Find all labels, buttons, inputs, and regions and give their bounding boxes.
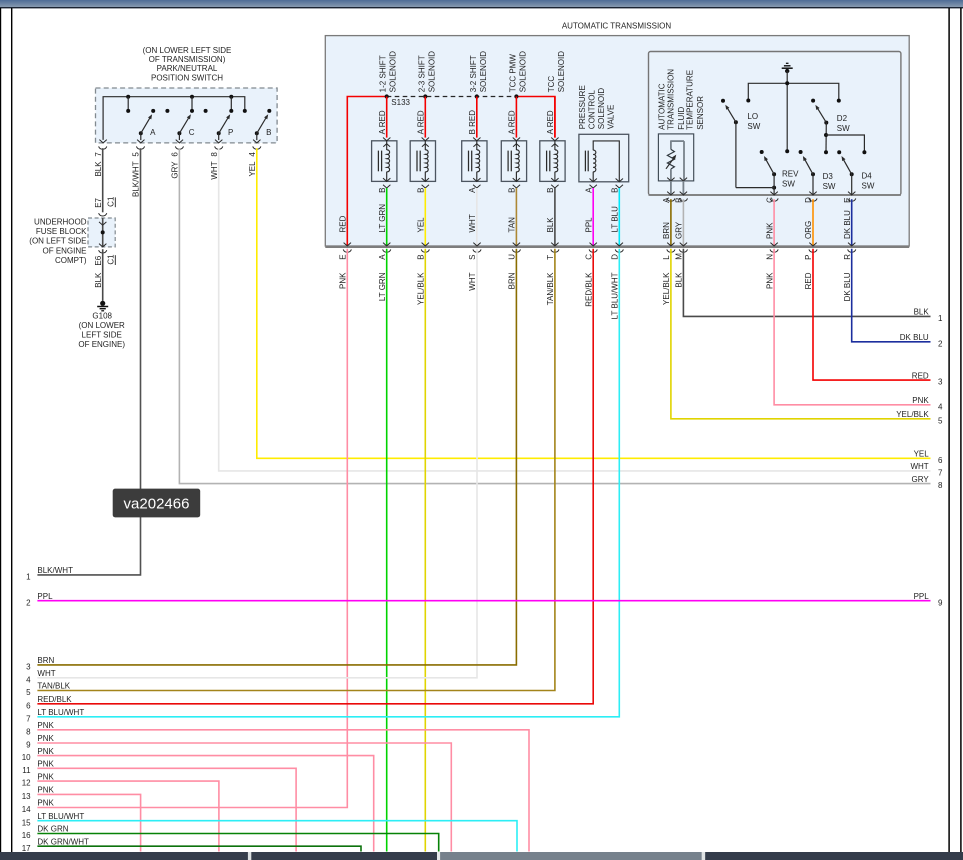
contact dot x=269 (267, 109, 271, 113)
connector arc E7/C1 (99, 213, 107, 216)
connector arc pin E (343, 249, 351, 252)
arrow at transmission connector pin D (616, 243, 623, 246)
connector arc pin P (809, 249, 817, 252)
arrow below solenoid 2-3 SHIFT (422, 185, 429, 188)
svg-text:OF ENGINE: OF ENGINE (42, 246, 86, 255)
svg-text:va202466: va202466 (124, 496, 190, 513)
svg-text:8: 8 (938, 481, 943, 490)
svg-text:BLK/WHT: BLK/WHT (132, 161, 141, 197)
svg-text:6: 6 (938, 456, 943, 465)
svg-text:SW: SW (837, 124, 850, 133)
svg-text:DK GRN/WHT: DK GRN/WHT (37, 837, 89, 846)
wire RED drop to TCC PMW solenoid (515, 97, 517, 138)
underhood fuse block box (88, 218, 115, 247)
switch contact C pivot dot (177, 131, 181, 135)
D3 SW arm (805, 159, 813, 174)
svg-text:7: 7 (938, 469, 943, 478)
arrow at pressure valve terminal A (590, 179, 597, 182)
svg-text:L: L (662, 255, 671, 260)
svg-text:DK GRN: DK GRN (37, 825, 68, 834)
splice junction dot 2-3 SHIFT (423, 94, 427, 98)
svg-text:PNK: PNK (339, 272, 348, 289)
svg-text:YEL: YEL (914, 450, 930, 459)
sensor lead wires to inner box bottom (670, 181, 672, 195)
svg-text:8: 8 (210, 152, 219, 157)
connector arc pin 7 (99, 146, 107, 149)
svg-text:ORG: ORG (804, 221, 813, 239)
svg-text:COMPT): COMPT) (55, 256, 87, 265)
connector arc pin U (512, 249, 520, 252)
svg-text:R: R (843, 254, 852, 260)
arrow at sensor terminal A (667, 178, 674, 181)
fuse block junction dot S-point (101, 230, 105, 234)
wire PNK from left connector 8 down off page (37, 730, 529, 852)
wire PNK from left connector 11 down off page (37, 768, 296, 851)
upper switch bus wire (748, 83, 839, 100)
wire YEL/BLK pin B down off page (424, 249, 426, 852)
connector arc pin 5 (136, 146, 144, 149)
wire RED/BLK pin C to left connector 6 (37, 249, 593, 704)
solenoid 1-2 SHIFT coil (386, 141, 388, 150)
connector arc pin M (679, 249, 687, 252)
solenoid TCC PMW box (501, 141, 526, 182)
arrow at pressure valve terminal B (616, 179, 623, 182)
wire BRN pin U to left connector 3 (37, 249, 516, 665)
thermistor symbol (670, 141, 672, 149)
svg-text:C: C (584, 254, 593, 260)
automatic transmission component box (325, 36, 909, 246)
svg-text:D2: D2 (837, 114, 848, 123)
svg-text:A RED: A RED (546, 110, 555, 134)
wire RED drop to 3-2 SHIFT solenoid (476, 97, 478, 138)
svg-text:DK BLU: DK BLU (900, 333, 929, 342)
wire YEL/BLK pin L to right connector 5 (671, 249, 931, 419)
solenoid 3-2 SHIFT core bars (468, 151, 470, 172)
D2 SW open contact dot (811, 99, 815, 103)
connector arc pin R (848, 249, 856, 252)
bus junction dot x=128 (126, 95, 130, 99)
wire LT BLU/WHT pin D to left connector 7 (37, 249, 619, 717)
pressure control solenoid valve box (579, 134, 629, 182)
svg-text:GRY: GRY (675, 221, 684, 239)
arrow at solenoid 3-2 SHIFT bottom (473, 178, 480, 181)
contact dot x=206 (204, 109, 208, 113)
REV SW junction dot with LO SW wire (772, 186, 776, 190)
arrow at transmission connector pin S (473, 243, 480, 246)
svg-text:G108: G108 (92, 312, 112, 321)
svg-text:4: 4 (248, 152, 257, 157)
switch contact P pivot dot (217, 131, 221, 135)
arrow below solenoid TCC (551, 185, 558, 188)
svg-text:AUTOMATIC: AUTOMATIC (658, 83, 667, 130)
svg-text:WHT: WHT (37, 669, 55, 678)
svg-text:E: E (843, 198, 852, 203)
svg-text:RED/BLK: RED/BLK (37, 695, 72, 704)
svg-text:1-2 SHIFT: 1-2 SHIFT (379, 55, 388, 92)
svg-text:B: B (378, 188, 387, 193)
svg-text:TAN/BLK: TAN/BLK (546, 272, 555, 305)
connector arc pin C (589, 249, 597, 252)
solenoid TCC PMW core bars (507, 151, 509, 172)
svg-text:A: A (150, 128, 156, 137)
REV SW pivot dot (772, 172, 776, 176)
svg-text:TAN: TAN (508, 217, 517, 233)
svg-text:UNDERHOOD: UNDERHOOD (34, 217, 87, 226)
wire DK GRN from left connector 16 down off page (37, 834, 438, 852)
wire BLK fuse block to G108 (102, 249, 104, 301)
svg-text:PPL: PPL (37, 592, 53, 601)
wire ORG inside transmission box (812, 199, 814, 246)
LO SW pivot drop wire (735, 122, 737, 187)
wire LT GRN from solenoid to box bottom (386, 188, 388, 246)
svg-text:SW: SW (823, 182, 836, 191)
bus junction dot x=192 (190, 95, 194, 99)
arrow below pressure valve B (616, 185, 623, 188)
svg-text:PNK: PNK (912, 396, 929, 405)
wire RED drop to 1-2 SHIFT solenoid (386, 97, 388, 138)
connector arc pin E (848, 198, 856, 201)
solenoid 1-2 SHIFT core bars (377, 151, 379, 172)
bus contact dot right (D2 SW) (837, 99, 841, 103)
svg-text:E6: E6 (94, 255, 103, 265)
wire WHT from solenoid to box bottom (476, 188, 478, 246)
svg-text:14: 14 (22, 805, 31, 814)
switch C drop arrow at box bottom (176, 140, 183, 143)
svg-text:D4: D4 (862, 171, 873, 180)
svg-text:WHT: WHT (910, 462, 928, 471)
svg-text:2: 2 (26, 598, 31, 607)
svg-text:YEL/BLK: YEL/BLK (417, 272, 426, 305)
arrow at inner box bottom pin D (809, 192, 816, 195)
arrow at solenoid 1-2 SHIFT bottom (383, 178, 390, 181)
svg-text:PNK: PNK (765, 222, 774, 239)
svg-text:CONTROL: CONTROL (588, 90, 597, 130)
svg-text:B: B (675, 198, 684, 203)
REV SW open contact dot (760, 150, 764, 154)
svg-text:PNK: PNK (37, 734, 54, 743)
connector arc pin S (473, 249, 481, 252)
switch C arm (179, 118, 189, 134)
svg-text:B: B (508, 188, 517, 193)
switch A pivot drop wire (140, 133, 142, 140)
wire BLK from solenoid to box bottom (554, 188, 556, 246)
D2 SW arm (817, 108, 826, 123)
contact dot D4-right (862, 150, 866, 154)
svg-text:D3: D3 (823, 172, 834, 181)
svg-text:B: B (417, 188, 426, 193)
connector arc pin 8 (215, 146, 223, 149)
svg-text:PNK: PNK (37, 772, 54, 781)
svg-text:3: 3 (26, 663, 31, 672)
svg-text:YEL/BLK: YEL/BLK (896, 410, 929, 419)
svg-text:9: 9 (26, 741, 31, 750)
pressure valve coil circuit (593, 141, 619, 182)
D4 SW open contact dot (837, 150, 841, 154)
svg-text:A: A (468, 187, 477, 193)
svg-text:(ON LOWER: (ON LOWER (79, 321, 125, 330)
wire BLK from park/neutral to E7 (102, 148, 104, 212)
wire RED drop to TCC solenoid (554, 97, 556, 138)
left page border lines (0, 8, 2, 852)
LO SW open contact dot (721, 99, 725, 103)
solenoid 3-2 SHIFT box (462, 141, 487, 182)
temperature sensor box (658, 134, 693, 181)
svg-text:12: 12 (22, 779, 31, 788)
contact dot x=128 (126, 109, 130, 113)
arrow at transmission connector pin A (383, 243, 390, 246)
contact dot D3-right (824, 150, 828, 154)
svg-text:P: P (228, 128, 233, 137)
svg-text:WHT: WHT (468, 272, 477, 290)
svg-text:16: 16 (22, 831, 31, 840)
svg-text:(ON LOWER LEFT SIDE: (ON LOWER LEFT SIDE (143, 46, 232, 55)
svg-text:RED: RED (912, 371, 929, 380)
svg-text:6: 6 (171, 152, 180, 157)
solenoid TCC box (540, 141, 565, 182)
arrow at inner box bottom pin C (770, 192, 777, 195)
D3 SW drop wire (812, 174, 814, 195)
arrow below solenoid TCC PMW (513, 185, 520, 188)
svg-text:OF TRANSMISSION): OF TRANSMISSION) (149, 55, 226, 64)
svg-text:LT GRN: LT GRN (378, 272, 387, 301)
svg-text:A RED: A RED (508, 110, 517, 134)
wire TAN from solenoid to box bottom (515, 188, 517, 246)
arrow at transmission connector pin N (770, 243, 777, 246)
svg-text:7: 7 (26, 714, 31, 723)
svg-text:PNK: PNK (37, 721, 54, 730)
splice junction dot TCC PMW (514, 94, 518, 98)
svg-text:10: 10 (22, 753, 31, 762)
arrow at sensor terminal B (680, 178, 687, 181)
arrow at transmission connector pin R (848, 243, 855, 246)
svg-text:RED: RED (804, 272, 813, 289)
svg-text:15: 15 (22, 818, 31, 827)
svg-text:P: P (804, 254, 813, 259)
solenoid 2-3 SHIFT box (410, 141, 435, 182)
svg-text:1: 1 (26, 573, 31, 582)
D3 SW open contact dot (799, 150, 803, 154)
arrow into solenoid 1-2 SHIFT (383, 138, 390, 141)
solenoid 3-2 SHIFT coil (476, 141, 478, 150)
svg-text:4: 4 (938, 402, 943, 411)
svg-text:SOLENOID: SOLENOID (389, 51, 398, 93)
arrow into solenoid TCC PMW (513, 138, 520, 141)
svg-text:PNK: PNK (765, 272, 774, 289)
svg-text:YEL/BLK: YEL/BLK (662, 272, 671, 305)
LO SW pivot dot (734, 120, 738, 124)
wire PNK from left connector 10 down off page (37, 756, 373, 852)
contact dot x=167 (165, 109, 169, 113)
svg-text:BRN: BRN (662, 222, 671, 239)
pressure valve core bars (584, 151, 586, 172)
arrow at inner box bottom pin A (667, 192, 674, 195)
svg-text:2-3 SHIFT: 2-3 SHIFT (417, 55, 426, 92)
wire BLK/WHT from switch pin 5 to left connector 1 (37, 148, 140, 575)
wire RED pin P to right connector 3 (813, 249, 931, 380)
svg-text:C: C (189, 128, 195, 137)
svg-text:3: 3 (938, 378, 943, 387)
wire PPL from pressure valve A (592, 188, 594, 246)
svg-text:S133: S133 (391, 98, 410, 107)
connector arc pin A (667, 198, 675, 201)
connector arc E6/C1 (99, 250, 107, 253)
arrow at inner box bottom pin E (848, 192, 855, 195)
splice junction dot 3-2 SHIFT (475, 94, 479, 98)
svg-text:BLK/WHT: BLK/WHT (37, 566, 73, 575)
D2 SW pivot dot (824, 121, 828, 125)
svg-text:B: B (546, 188, 555, 193)
arrow into solenoid 2-3 SHIFT (422, 138, 429, 141)
wire BLK pin M to right connector 1 (683, 249, 930, 317)
solenoid TCC PMW coil (515, 141, 517, 150)
thermistor arrow (666, 158, 674, 169)
wire PNK pin N to right connector 4 (774, 249, 930, 405)
svg-text:AUTOMATIC TRANSMISSION: AUTOMATIC TRANSMISSION (562, 21, 672, 30)
svg-text:2: 2 (938, 339, 943, 348)
svg-text:B RED: B RED (468, 110, 477, 135)
arrow at solenoid TCC bottom (551, 178, 558, 181)
bus junction dot x=231 (229, 95, 233, 99)
wire RED solid from bus to TCC solenoid (516, 97, 555, 138)
svg-text:PPL: PPL (914, 592, 930, 601)
connector arc pin L (667, 249, 675, 252)
wire LT GRN pin A down off page (386, 249, 388, 852)
svg-text:U: U (508, 254, 517, 260)
wire YEL from switch pin 4 to right connector 6 (257, 148, 931, 458)
svg-text:4: 4 (26, 675, 31, 684)
svg-text:A: A (584, 187, 593, 193)
wire TAN/BLK pin T to left connector 5 (37, 249, 555, 691)
park/neutral position switch box (96, 88, 278, 143)
arrow into solenoid 3-2 SHIFT (473, 138, 480, 141)
switch B drop arrow at box bottom (253, 140, 260, 143)
wire LT BLU from pressure valve B (618, 188, 620, 246)
ground G108 symbol (100, 301, 105, 306)
svg-text:T: T (546, 255, 555, 260)
svg-text:SW: SW (862, 181, 875, 190)
svg-text:SOLENOID: SOLENOID (518, 51, 527, 93)
svg-text:5: 5 (26, 688, 31, 697)
svg-text:TCC: TCC (547, 76, 556, 93)
svg-text:PNK: PNK (37, 747, 54, 756)
svg-text:E7: E7 (94, 197, 103, 207)
LO SW arm (727, 108, 736, 122)
D4 SW pivot dot (850, 172, 854, 176)
switch A drop arrow at box bottom (137, 140, 144, 143)
svg-text:3-2 SHIFT: 3-2 SHIFT (469, 55, 478, 92)
svg-text:BLK: BLK (914, 308, 930, 317)
wire BRN inside transmission box (670, 199, 672, 246)
svg-text:PNK: PNK (37, 786, 54, 795)
arrow at solenoid 2-3 SHIFT bottom (422, 178, 429, 181)
connector arc pin T (551, 249, 559, 252)
wire GRY from switch pin 6 to right connector 8 (179, 148, 930, 483)
svg-text:PARK/NEUTRAL: PARK/NEUTRAL (157, 64, 218, 73)
park/neutral switch internal bus wire (103, 97, 245, 140)
arrow at transmission connector pin M (680, 243, 687, 246)
svg-text:RED: RED (339, 215, 348, 232)
wire PPL left connector 2 to right connector 9 (37, 600, 930, 602)
contact dot x=192 (190, 109, 194, 113)
wire inside fuse block (102, 218, 104, 247)
LO SW wire joining REV SW drop (736, 187, 774, 189)
svg-text:1: 1 (938, 314, 943, 323)
bus contact dot left (LO SW) (746, 99, 750, 103)
svg-text:LT GRN: LT GRN (378, 204, 387, 233)
bottom scrollbar/taskbar (0, 852, 963, 860)
svg-text:BLK: BLK (675, 272, 684, 288)
svg-text:YEL: YEL (417, 217, 426, 233)
D4 SW arm (843, 159, 851, 174)
switch contact B pivot dot (255, 131, 259, 135)
wire RED feed from splice S133 down left side of box (347, 97, 386, 246)
connector arc pin 6 (175, 146, 183, 149)
solenoid 2-3 SHIFT core bars (416, 151, 418, 172)
solenoid 2-3 SHIFT coil (424, 141, 426, 150)
tooltip va202466 (113, 489, 201, 518)
wire DK BLU pin R to right connector 2 (852, 249, 931, 342)
svg-text:PNK: PNK (37, 760, 54, 769)
switch contact A pivot dot (139, 131, 143, 135)
arrow at transmission connector pin E (344, 243, 351, 246)
left bus drop arrow at box bottom (99, 140, 106, 143)
svg-text:SOLENOID: SOLENOID (479, 51, 488, 93)
svg-text:A: A (378, 254, 387, 260)
transmission fluid temp sensor / switch assembly inner box (649, 52, 901, 196)
svg-text:5: 5 (938, 416, 943, 425)
right page border lines (948, 8, 950, 852)
switch B pivot drop wire (256, 133, 258, 140)
svg-text:C1: C1 (107, 196, 116, 207)
svg-text:D: D (804, 197, 813, 203)
svg-text:SW: SW (747, 122, 760, 131)
arrow at transmission connector pin T (551, 243, 558, 246)
switch P drop arrow at box bottom (215, 140, 222, 143)
svg-text:BRN: BRN (508, 272, 517, 289)
arrow into fuse block (99, 222, 106, 225)
svg-text:(ON LEFT SIDE: (ON LEFT SIDE (29, 237, 86, 246)
svg-text:5: 5 (132, 152, 141, 157)
svg-text:PRESSURE: PRESSURE (578, 85, 587, 129)
bus stub to contact P-right (230, 97, 232, 111)
bus junction dot at ground wire (785, 81, 789, 85)
svg-text:OF ENGINE): OF ENGINE) (78, 340, 125, 349)
svg-text:FUSE BLOCK: FUSE BLOCK (36, 227, 87, 236)
svg-text:SENSOR: SENSOR (696, 96, 705, 130)
arrow at inner box bottom pin B (680, 192, 687, 195)
svg-text:7: 7 (94, 152, 103, 157)
svg-text:LT BLU/WHT: LT BLU/WHT (611, 272, 620, 319)
wire GRY inside transmission box (682, 199, 684, 246)
switch B arm (257, 118, 266, 134)
arrow at transmission connector pin L (667, 243, 674, 246)
switch P arm (219, 118, 229, 134)
svg-text:REV: REV (782, 169, 799, 178)
contact dot x=245 (243, 109, 247, 113)
svg-text:GRY: GRY (911, 475, 929, 484)
svg-text:DK BLU: DK BLU (843, 272, 852, 301)
wire WHT from switch pin 8 to right connector 7 (219, 148, 931, 471)
contact dot x=231 (229, 109, 233, 113)
svg-text:TRANSMISSION: TRANSMISSION (666, 69, 675, 130)
svg-text:TEMPERATURE: TEMPERATURE (686, 70, 695, 130)
D2 junction dot (824, 133, 828, 137)
connector arc pin D (809, 198, 817, 201)
svg-text:B: B (266, 128, 271, 137)
svg-text:LT BLU/WHT: LT BLU/WHT (37, 708, 84, 717)
svg-text:8: 8 (26, 727, 31, 736)
svg-text:FLUID: FLUID (677, 106, 686, 129)
